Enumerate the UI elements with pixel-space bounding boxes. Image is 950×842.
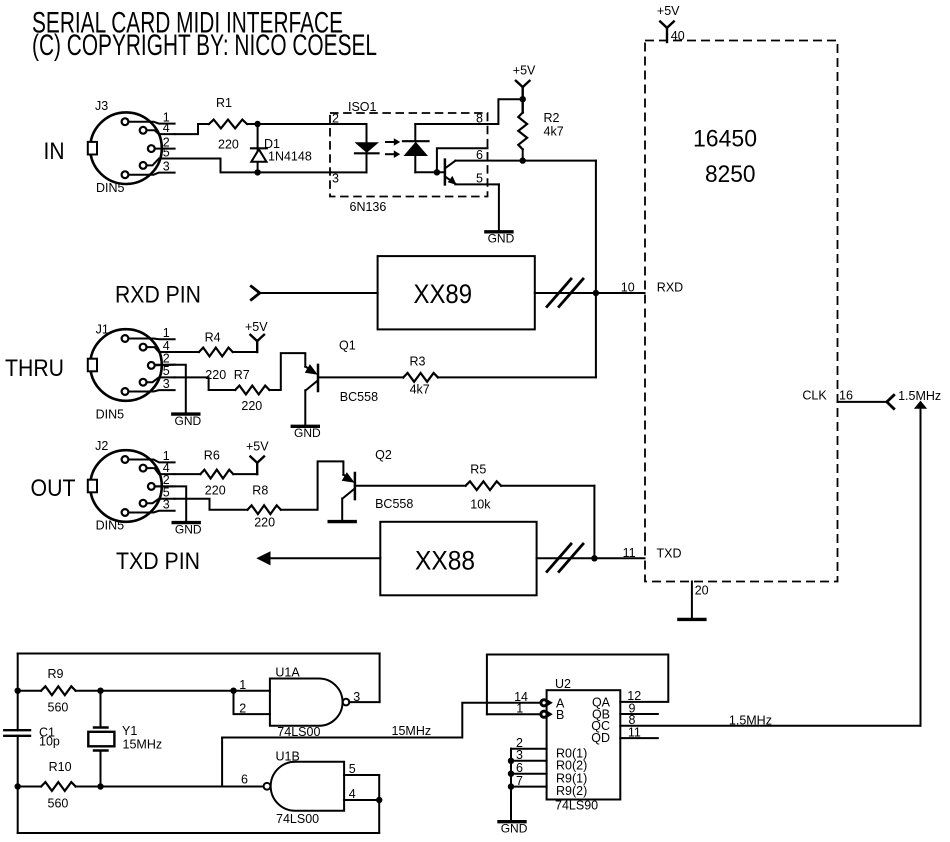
svg-text:+5V: +5V [245,320,268,334]
svg-text:560: 560 [48,701,69,715]
svg-text:2: 2 [332,112,339,126]
svg-text:220: 220 [241,399,262,413]
svg-text:R6: R6 [204,449,220,463]
svg-text:TXD: TXD [657,547,682,561]
svg-text:+5V: +5V [513,64,536,78]
svg-text:6: 6 [241,773,248,787]
svg-text:4k7: 4k7 [544,125,564,139]
svg-text:+5V: +5V [246,440,269,454]
svg-text:GND: GND [488,232,515,246]
svg-text:CLK: CLK [802,389,827,403]
svg-text:Q1: Q1 [339,339,356,353]
svg-text:1.5MHz: 1.5MHz [898,389,941,403]
svg-text:U1B: U1B [276,750,300,764]
svg-text:R1: R1 [216,96,232,110]
svg-text:Y1: Y1 [122,724,137,738]
svg-text:+5V: +5V [657,4,680,18]
svg-text:DIN5: DIN5 [96,408,125,422]
svg-text:1: 1 [239,678,246,692]
svg-text:3: 3 [516,748,523,762]
svg-text:R10: R10 [49,760,72,774]
svg-text:15MHz: 15MHz [392,724,432,738]
svg-text:GND: GND [175,522,202,536]
svg-text:20: 20 [695,584,709,598]
svg-text:560: 560 [48,797,69,811]
svg-text:TXD PIN: TXD PIN [116,548,200,575]
svg-text:R7: R7 [234,368,250,382]
svg-text:10k: 10k [470,498,491,512]
svg-text:220: 220 [254,516,275,530]
svg-text:74LS90: 74LS90 [555,799,598,813]
svg-text:16: 16 [839,389,853,403]
svg-text:3: 3 [353,690,360,704]
svg-text:R2: R2 [544,111,560,125]
svg-text:1.5MHz: 1.5MHz [729,713,772,727]
svg-text:XX89: XX89 [414,279,473,309]
svg-text:10p: 10p [39,735,60,749]
svg-text:3: 3 [163,377,170,391]
svg-text:16450: 16450 [693,126,757,153]
svg-text:8250: 8250 [705,161,756,188]
svg-text:220: 220 [218,137,239,151]
svg-text:R3: R3 [410,355,426,369]
svg-text:Q2: Q2 [375,448,392,462]
svg-text:1N4148: 1N4148 [268,150,312,164]
svg-text:4k7: 4k7 [410,383,430,397]
svg-text:4: 4 [163,121,170,135]
svg-text:R9(2): R9(2) [556,784,587,798]
svg-text:XX88: XX88 [415,546,475,576]
svg-text:40: 40 [671,29,685,43]
svg-text:74LS00: 74LS00 [276,812,319,826]
svg-text:ISO1: ISO1 [348,100,377,114]
svg-text:6: 6 [516,761,523,775]
svg-text:6N136: 6N136 [350,200,387,214]
svg-text:THRU: THRU [5,355,64,382]
svg-text:R5: R5 [470,463,486,477]
svg-text:U2: U2 [555,677,571,691]
svg-text:10: 10 [621,280,635,294]
svg-text:GND: GND [501,821,528,835]
svg-text:3: 3 [163,159,170,173]
svg-text:U1A: U1A [275,665,300,679]
svg-text:220: 220 [205,484,226,498]
svg-text:R9(1): R9(1) [556,771,587,785]
svg-text:RXD PIN: RXD PIN [115,282,201,309]
svg-text:GND: GND [294,426,321,440]
svg-text:3: 3 [332,172,339,186]
svg-text:OUT: OUT [31,475,76,502]
svg-text:J2: J2 [95,439,108,453]
svg-text:11: 11 [628,725,641,739]
svg-text:QD: QD [591,731,610,745]
svg-text:R9: R9 [48,667,64,681]
svg-text:2: 2 [239,702,246,716]
svg-text:BC558: BC558 [340,390,378,404]
svg-text:5: 5 [349,762,356,776]
svg-text:RXD: RXD [657,281,683,295]
svg-text:R4: R4 [205,330,221,344]
svg-text:J3: J3 [95,99,108,113]
svg-text:R8: R8 [252,484,268,498]
svg-text:R0(2): R0(2) [556,758,587,772]
svg-text:4: 4 [349,787,356,801]
svg-text:15MHz: 15MHz [123,738,163,752]
svg-text:B: B [556,708,564,722]
svg-text:IN: IN [44,138,65,165]
svg-text:GND: GND [175,414,202,428]
svg-text:3: 3 [163,498,170,512]
svg-text:7: 7 [516,774,523,788]
svg-text:5: 5 [163,145,170,159]
svg-text:(C) COPYRIGHT BY: NICO COESEL: (C) COPYRIGHT BY: NICO COESEL [32,29,377,62]
svg-text:BC558: BC558 [375,497,413,511]
